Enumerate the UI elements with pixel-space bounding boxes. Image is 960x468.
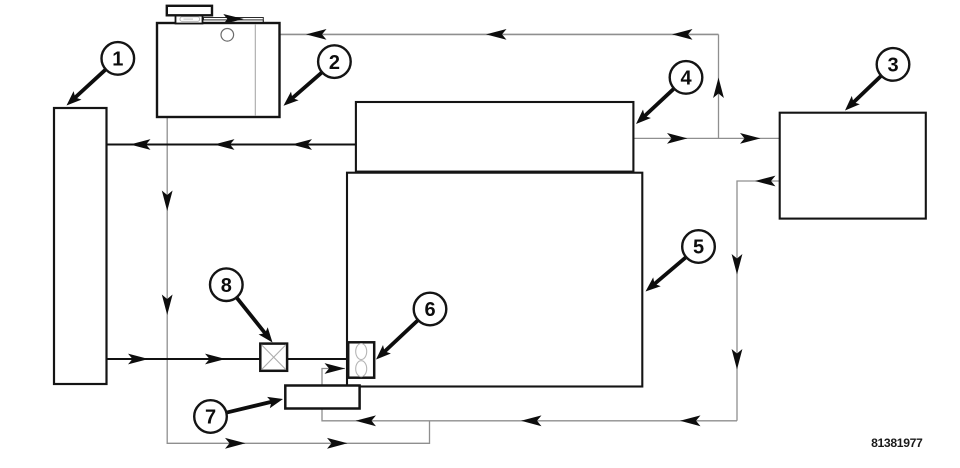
svg-text:1: 1 bbox=[112, 49, 123, 71]
svg-text:7: 7 bbox=[205, 407, 216, 429]
svg-text:4: 4 bbox=[680, 68, 692, 90]
svg-text:5: 5 bbox=[693, 237, 704, 259]
svg-text:2: 2 bbox=[329, 52, 340, 74]
svg-text:6: 6 bbox=[424, 299, 435, 321]
svg-text:8: 8 bbox=[221, 275, 232, 297]
svg-text:3: 3 bbox=[887, 55, 898, 77]
svg-text:81381977: 81381977 bbox=[871, 436, 923, 450]
